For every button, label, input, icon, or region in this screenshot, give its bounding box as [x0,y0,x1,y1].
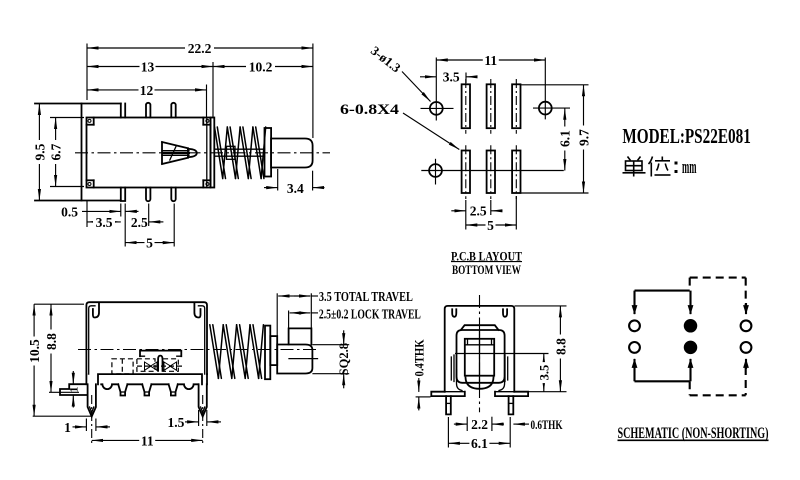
svg-text:3.5: 3.5 [443,70,460,85]
svg-text:6.1: 6.1 [558,130,573,147]
svg-text:12: 12 [140,83,154,98]
svg-text:2.5±0.2 LOCK TRAVEL: 2.5±0.2 LOCK TRAVEL [319,306,421,321]
svg-text:BOTTOM VIEW: BOTTOM VIEW [452,262,521,277]
svg-text:2.5: 2.5 [470,204,487,219]
svg-text:5: 5 [487,218,494,233]
svg-text:9.5: 9.5 [32,143,47,160]
svg-text:3.5: 3.5 [96,215,113,230]
svg-text:2.5: 2.5 [131,215,148,230]
svg-text:10.5: 10.5 [27,339,42,363]
svg-text:22.2: 22.2 [188,41,212,56]
svg-text:2.2: 2.2 [471,417,488,432]
svg-text:MODEL:PS22E081: MODEL:PS22E081 [622,124,750,148]
svg-text:mm: mm [682,157,697,178]
svg-text:9.7: 9.7 [576,129,591,146]
svg-text:0.4THK: 0.4THK [413,339,427,376]
svg-text:6-0.8X4: 6-0.8X4 [340,102,399,118]
svg-text:SQ2.8: SQ2.8 [337,343,351,375]
svg-text:3.5: 3.5 [537,365,551,381]
svg-text:11: 11 [141,433,154,448]
svg-text:0.6THK: 0.6THK [531,417,564,432]
svg-text:1: 1 [64,420,71,435]
svg-text:11: 11 [484,53,497,68]
svg-text:3.4: 3.4 [287,181,304,196]
svg-text:1: 1 [68,386,80,392]
svg-text:6.1: 6.1 [471,436,488,451]
svg-text:1.5: 1.5 [167,415,184,430]
svg-text:8.8: 8.8 [44,333,59,350]
svg-text:0.5: 0.5 [61,204,78,219]
svg-text:3.5 TOTAL TRAVEL: 3.5 TOTAL TRAVEL [319,289,413,304]
svg-text:13: 13 [141,59,155,74]
svg-text:10.2: 10.2 [249,59,273,74]
svg-text:8.8: 8.8 [553,338,568,355]
svg-text:6.7: 6.7 [48,143,63,160]
svg-text:5: 5 [146,235,153,250]
